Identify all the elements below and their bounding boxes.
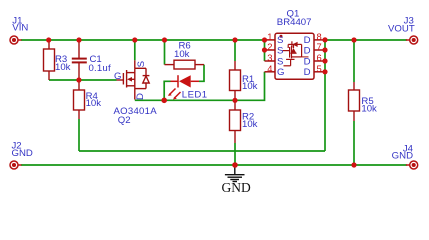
junction R3 top on VIN rail	[46, 37, 51, 42]
junction C1 top on VIN rail	[76, 37, 81, 42]
junction R6 feed on VIN rail	[162, 37, 167, 42]
svg-text:10k: 10k	[242, 119, 258, 130]
wire VOUT rail Q1 pin8 to J3	[325, 39, 407, 41]
junction ground symbol on GND rail	[232, 162, 238, 168]
LED LED1	[168, 75, 199, 99]
svg-text:LED1: LED1	[182, 90, 208, 101]
svg-text:5: 5	[317, 63, 322, 74]
ground symbol	[225, 165, 245, 182]
wire R6 feed drop from VIN rail	[164, 40, 166, 65]
resistor R4	[74, 80, 85, 119]
wire R5 top drop from VOUT rail	[353, 40, 355, 82]
junction Q1 pin5	[322, 69, 327, 74]
connector J3	[406, 36, 418, 44]
svg-text:D: D	[304, 45, 311, 56]
svg-text:S: S	[277, 56, 283, 67]
wire node rail R3 C1 R4 to Q2 gate	[49, 79, 117, 81]
junction R1 R2 divider node	[232, 98, 237, 103]
wire LED1 cathode drop to gate net	[164, 81, 170, 100]
resistor R3	[44, 40, 55, 80]
svg-text:VOUT: VOUT	[388, 24, 415, 35]
svg-text:GND: GND	[12, 148, 33, 159]
wire VOUT feedback bottom line	[79, 150, 325, 152]
svg-text:2: 2	[267, 41, 272, 52]
junction R5 top on VOUT rail	[351, 37, 356, 42]
svg-text:G: G	[277, 67, 284, 78]
wire Q1 left source pins vertical	[264, 40, 266, 61]
svg-text:Q2: Q2	[118, 115, 131, 126]
junction Q1 pin1 on VIN rail	[262, 37, 267, 42]
svg-text:D: D	[135, 93, 146, 100]
wire R5 bottom drop to GND rail	[353, 121, 355, 165]
junction Q1 pin8 on VOUT	[322, 37, 327, 42]
svg-text:0.1uf: 0.1uf	[89, 63, 111, 74]
svg-text:BR4407: BR4407	[277, 17, 312, 28]
resistor R2	[230, 100, 241, 143]
svg-text:D: D	[304, 56, 311, 67]
wire R6 right to LED1 anode	[199, 65, 204, 82]
wire GND bottom rail J2 to J4	[21, 164, 407, 166]
transistor Q1 inner mosfet drawing	[283, 41, 309, 66]
svg-text:10k: 10k	[174, 49, 190, 60]
junction Q1 pin6	[322, 58, 327, 63]
wire Q2 source drop from VIN rail	[134, 40, 136, 60]
svg-text:S: S	[277, 45, 283, 56]
svg-text:D: D	[304, 67, 311, 78]
resistor R6	[165, 60, 205, 69]
svg-text:S: S	[136, 61, 147, 67]
transistor Q1 BR4407 package body	[265, 33, 326, 79]
resistor R5	[349, 82, 360, 121]
svg-text:6: 6	[317, 52, 322, 63]
wire R2 bottom to GND rail	[234, 143, 236, 165]
wire VIN top rail J1 to Q1 pin1	[21, 39, 265, 41]
svg-text:VIN: VIN	[12, 23, 28, 34]
wire R4 bottom drop	[78, 119, 80, 151]
svg-text:3: 3	[267, 52, 272, 63]
connector J1	[10, 36, 22, 44]
svg-text:GND: GND	[222, 180, 251, 195]
svg-text:10k: 10k	[242, 81, 258, 92]
svg-text:7: 7	[317, 41, 322, 52]
wire Q1 gate pin4 down and left to divider node	[135, 72, 265, 101]
connector J2	[10, 161, 22, 169]
junction R1 top on VIN rail	[232, 37, 237, 42]
svg-text:10k: 10k	[86, 98, 102, 109]
resistor R1	[230, 61, 241, 100]
svg-text:10k: 10k	[361, 104, 377, 115]
svg-text:10k: 10k	[55, 62, 71, 73]
svg-text:4: 4	[267, 63, 272, 74]
wire R1 top drop from VIN rail	[234, 40, 236, 61]
junction Q1 pin2	[262, 47, 267, 52]
junction R5 bottom on GND rail	[351, 162, 356, 167]
svg-text:G: G	[114, 71, 121, 82]
connector J4	[406, 161, 418, 169]
junction R4 top on gate node rail	[76, 77, 81, 82]
wire Q1 right drain pins vertical down	[324, 40, 326, 151]
junction Q1 pin7	[322, 47, 327, 52]
svg-text:GND: GND	[392, 150, 413, 161]
junction LED1 cathode on divider net	[161, 98, 167, 104]
junction Q2 source on VIN rail	[132, 37, 137, 42]
capacitor C1	[72, 40, 87, 80]
transistor Q2 AO3401A P-MOSFET symbol	[117, 60, 150, 99]
